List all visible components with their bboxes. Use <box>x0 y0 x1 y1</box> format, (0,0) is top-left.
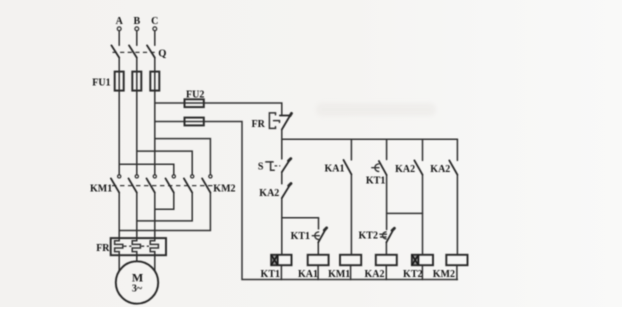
svg-text:B: B <box>133 16 140 27</box>
svg-text:M: M <box>132 270 143 284</box>
svg-text:S: S <box>258 161 264 172</box>
svg-text:FU2: FU2 <box>186 89 204 100</box>
svg-text:KA2: KA2 <box>395 164 415 175</box>
svg-text:KM1: KM1 <box>328 269 350 280</box>
svg-text:C: C <box>151 16 158 27</box>
svg-text:KA1: KA1 <box>325 163 345 174</box>
svg-text:KT2: KT2 <box>403 269 422 280</box>
svg-text:KT1: KT1 <box>366 175 385 186</box>
svg-text:KA2: KA2 <box>259 188 279 199</box>
svg-text:A: A <box>116 16 124 27</box>
svg-text:KT2: KT2 <box>359 231 378 242</box>
svg-text:KM2: KM2 <box>213 184 235 195</box>
svg-text:3~: 3~ <box>132 283 143 294</box>
svg-text:Q: Q <box>158 49 166 60</box>
svg-text:FR: FR <box>252 119 266 130</box>
svg-text:KT1: KT1 <box>291 231 310 242</box>
svg-text:KA1: KA1 <box>298 269 318 280</box>
svg-text:KT1: KT1 <box>261 269 280 280</box>
svg-text:KM2: KM2 <box>433 269 455 280</box>
svg-text:KA2: KA2 <box>430 164 450 175</box>
svg-text:FU1: FU1 <box>92 77 110 88</box>
svg-text:KM1: KM1 <box>90 184 112 195</box>
svg-text:KA2: KA2 <box>365 269 385 280</box>
svg-text:FR: FR <box>96 243 110 254</box>
